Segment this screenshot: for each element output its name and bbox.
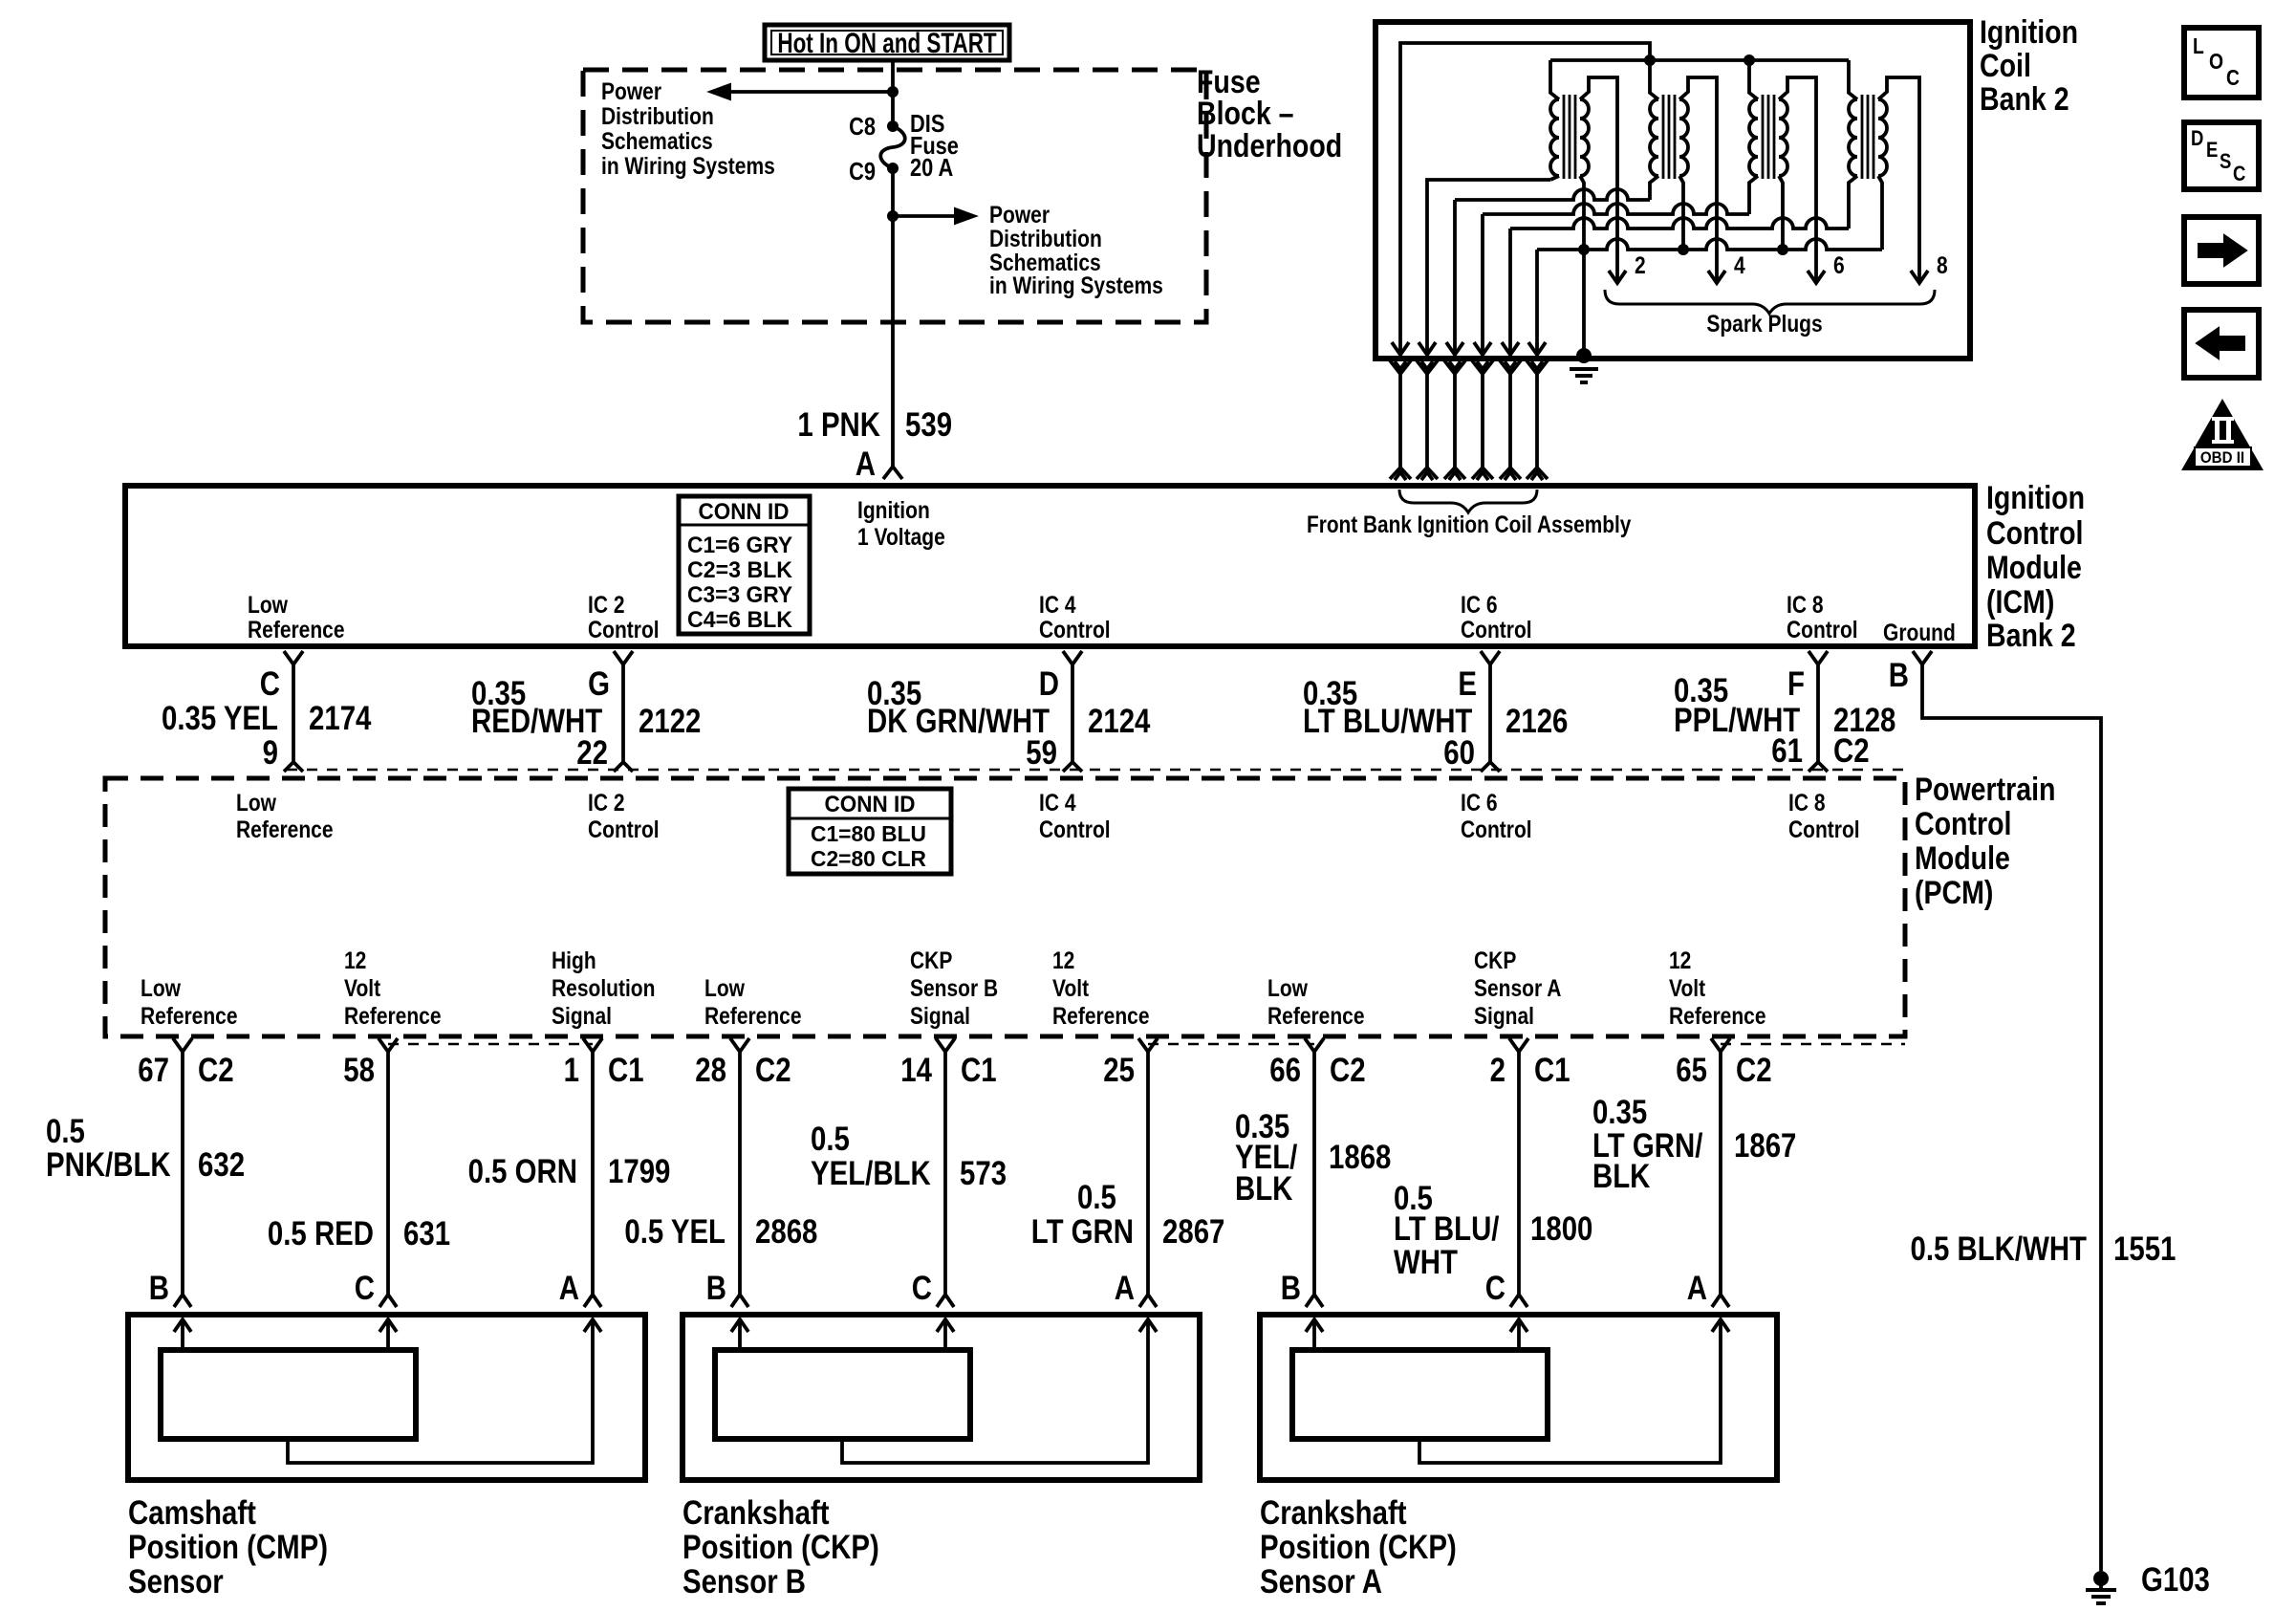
- svg-text:Low: Low: [704, 974, 745, 1001]
- svg-text:1551: 1551: [2113, 1230, 2176, 1268]
- svg-text:Ground: Ground: [1883, 619, 1956, 645]
- svg-text:C4=6 BLK: C4=6 BLK: [687, 606, 792, 632]
- svg-text:Control: Control: [1461, 816, 1532, 842]
- icon arrow left: [2184, 310, 2259, 378]
- connector pin D (ICM): [1063, 651, 1082, 664]
- svg-text:573: 573: [960, 1155, 1007, 1192]
- svg-text:4: 4: [1734, 251, 1745, 278]
- svg-text:CONN ID: CONN ID: [699, 498, 790, 524]
- svg-text:LT BLU/: LT BLU/: [1394, 1210, 1499, 1248]
- wire: 12V feed to coil primaries (top run): [1400, 43, 1650, 355]
- svg-text:6: 6: [1833, 251, 1845, 278]
- coil assembly wire W2 with inline connector: [1419, 342, 1436, 355]
- svg-text:Volt: Volt: [344, 974, 380, 1001]
- power feed label box "Hot In ON and START": [765, 25, 1009, 60]
- svg-text:Resolution: Resolution: [552, 974, 655, 1001]
- svg-text:2174: 2174: [309, 700, 371, 737]
- svg-text:Volt: Volt: [1669, 974, 1705, 1001]
- svg-text:Crankshaft: Crankshaft: [1260, 1494, 1407, 1532]
- svg-text:59: 59: [1026, 734, 1057, 772]
- svg-text:2868: 2868: [755, 1213, 817, 1251]
- svg-text:Low: Low: [141, 974, 181, 1001]
- svg-text:2867: 2867: [1162, 1213, 1224, 1251]
- svg-text:C2: C2: [755, 1052, 791, 1089]
- svg-text:CONN ID: CONN ID: [825, 791, 916, 816]
- wire: ignition feed vertical (PNK 539): [891, 60, 895, 126]
- wire from pin B to ground G103: [1922, 664, 2101, 1571]
- svg-text:539: 539: [905, 406, 952, 444]
- svg-text:LT GRN: LT GRN: [1031, 1213, 1134, 1251]
- ignition coil T3 (transformer): [1749, 99, 1758, 176]
- coil assembly wire W4 with inline connector: [1474, 342, 1491, 355]
- svg-text:Power: Power: [601, 77, 661, 104]
- sensor element (inner box): [161, 1350, 416, 1439]
- svg-text:Reference: Reference: [236, 816, 334, 842]
- wire loop to pin A: [842, 1321, 1148, 1463]
- svg-text:2: 2: [1635, 251, 1646, 278]
- connector pin 14 C1 (PCM) and wire to sensor: [936, 1038, 955, 1052]
- svg-text:C2=3 BLK: C2=3 BLK: [687, 556, 792, 582]
- svg-text:12: 12: [1669, 947, 1691, 973]
- coil assembly wire W1 with inline connector: [1392, 342, 1409, 355]
- svg-text:Front Bank Ignition Coil Assem: Front Bank Ignition Coil Assembly: [1307, 511, 1631, 537]
- ignition coil T4 (transformer): [1849, 99, 1857, 176]
- wire loop to pin A: [1419, 1321, 1721, 1463]
- svg-text:Control: Control: [588, 616, 660, 642]
- svg-text:Reference: Reference: [141, 1002, 238, 1029]
- svg-text:Power: Power: [989, 201, 1050, 228]
- svg-text:Control: Control: [1039, 616, 1111, 642]
- svg-text:632: 632: [198, 1146, 245, 1184]
- sensor element (inner box): [1292, 1350, 1548, 1439]
- wire: secondary common ground run: [1535, 250, 1539, 355]
- svg-text:Bank 2: Bank 2: [1980, 81, 2069, 118]
- svg-text:0.5 ORN: 0.5 ORN: [468, 1153, 577, 1190]
- connector grouping dashes (PCM bottom): [388, 1043, 593, 1046]
- svg-text:A: A: [856, 446, 876, 483]
- connector pin C (ICM): [284, 651, 303, 664]
- ignition control module (ICM) box: [125, 486, 1975, 646]
- svg-text:C1: C1: [1534, 1052, 1570, 1089]
- wire from ICM pin F to PCM: [1816, 664, 1820, 764]
- node: secondary ground junctions: [1578, 244, 1590, 255]
- svg-text:2122: 2122: [639, 703, 701, 740]
- connector pin B (ICM): [1913, 651, 1932, 664]
- ground (coil bank internal): [1576, 348, 1592, 363]
- svg-text:Reference: Reference: [704, 1002, 802, 1029]
- svg-text:2124: 2124: [1088, 703, 1150, 740]
- wire from ICM pin C to PCM: [292, 664, 295, 764]
- svg-text:Sensor A: Sensor A: [1474, 974, 1562, 1001]
- connector pin 66 C2 (PCM) and wire to sensor: [1305, 1038, 1324, 1052]
- svg-text:IC 8: IC 8: [1787, 591, 1824, 618]
- fuse block underhood dashed box: [583, 70, 1206, 322]
- svg-text:2126: 2126: [1505, 703, 1568, 740]
- svg-text:Sensor: Sensor: [128, 1563, 224, 1600]
- svg-text:C1: C1: [608, 1052, 644, 1089]
- svg-text:Reference: Reference: [1669, 1002, 1766, 1029]
- svg-text:BLK: BLK: [1235, 1170, 1293, 1208]
- sensor box: Crankshaft Sensor A: [1260, 1315, 1777, 1480]
- wire arrow right to Power Distribution Schematics: [893, 214, 955, 218]
- icon OBD II triangle: [2181, 399, 2264, 470]
- svg-text:0.5: 0.5: [46, 1113, 85, 1150]
- svg-text:B: B: [149, 1270, 169, 1307]
- ignition coil bank 2 box: [1375, 22, 1970, 359]
- svg-text:C2: C2: [1736, 1052, 1772, 1089]
- wire from ICM pin G to PCM: [621, 664, 625, 764]
- svg-text:C2: C2: [1330, 1052, 1366, 1089]
- svg-text:Signal: Signal: [1474, 1002, 1534, 1029]
- svg-text:CKP: CKP: [910, 947, 952, 973]
- svg-text:65: 65: [1676, 1052, 1707, 1089]
- svg-text:E: E: [1458, 665, 1477, 703]
- svg-text:12: 12: [344, 947, 366, 973]
- svg-text:Schematics: Schematics: [601, 127, 713, 154]
- svg-text:1800: 1800: [1530, 1210, 1592, 1248]
- svg-text:IC 2: IC 2: [588, 789, 625, 816]
- svg-text:A: A: [559, 1270, 579, 1307]
- svg-text:C2: C2: [198, 1052, 234, 1089]
- svg-text:67: 67: [138, 1052, 169, 1089]
- connector pin 1 C1 (PCM) and wire to sensor: [583, 1038, 602, 1052]
- wire from ICM pin E to PCM: [1488, 664, 1492, 764]
- svg-text:Low: Low: [1267, 974, 1308, 1001]
- svg-text:O: O: [2209, 51, 2223, 75]
- svg-text:Control: Control: [1986, 515, 2083, 552]
- svg-text:Position (CMP): Position (CMP): [128, 1529, 328, 1566]
- wire arrow left to Power Distribution Schematics: [730, 90, 893, 94]
- svg-text:20 A: 20 A: [910, 154, 953, 182]
- svg-text:Reference: Reference: [1267, 1002, 1365, 1029]
- wire loop to pin A: [288, 1321, 593, 1463]
- svg-text:C1=6 GRY: C1=6 GRY: [687, 532, 792, 557]
- svg-text:in Wiring Systems: in Wiring Systems: [601, 152, 775, 179]
- svg-text:C2=80 CLR: C2=80 CLR: [811, 848, 926, 872]
- svg-text:B: B: [706, 1270, 726, 1307]
- svg-text:CKP: CKP: [1474, 947, 1516, 973]
- svg-text:D: D: [2191, 128, 2203, 151]
- svg-text:Ignition: Ignition: [1980, 14, 2078, 51]
- svg-text:22: 22: [576, 734, 608, 772]
- svg-text:IC 4: IC 4: [1039, 591, 1076, 618]
- svg-text:61: 61: [1771, 732, 1803, 770]
- svg-text:in Wiring Systems: in Wiring Systems: [989, 272, 1163, 298]
- svg-text:C9: C9: [849, 158, 876, 185]
- svg-text:A: A: [1687, 1270, 1707, 1307]
- svg-text:C: C: [2233, 163, 2246, 186]
- svg-text:C: C: [912, 1270, 932, 1307]
- svg-text:0.5 BLK/WHT: 0.5 BLK/WHT: [1910, 1230, 2087, 1268]
- svg-text:Sensor B: Sensor B: [910, 974, 998, 1001]
- ground G103: [2093, 1571, 2109, 1586]
- svg-text:0.5 RED: 0.5 RED: [268, 1215, 374, 1252]
- svg-text:66: 66: [1269, 1052, 1301, 1089]
- svg-text:Control: Control: [1787, 616, 1858, 642]
- node: T2 primary feed junction: [1644, 54, 1656, 66]
- svg-text:WHT: WHT: [1394, 1244, 1458, 1281]
- svg-text:Control: Control: [1915, 806, 2011, 842]
- svg-text:Reference: Reference: [248, 616, 345, 642]
- brace: spark plugs: [1605, 290, 1935, 314]
- svg-text:E: E: [2206, 140, 2218, 163]
- svg-text:Low: Low: [248, 591, 288, 618]
- wire: IC control feeds to primaries: [1427, 180, 1550, 355]
- svg-text:Ignition: Ignition: [857, 496, 930, 523]
- node: branch to power distribution (left): [887, 86, 899, 98]
- svg-text:Reference: Reference: [344, 1002, 442, 1029]
- svg-text:C1=80 BLU: C1=80 BLU: [811, 823, 926, 847]
- svg-text:Distribution: Distribution: [989, 225, 1102, 251]
- svg-text:Control: Control: [1788, 816, 1860, 842]
- svg-text:Powertrain: Powertrain: [1915, 772, 2055, 808]
- svg-text:C: C: [1485, 1270, 1505, 1307]
- svg-text:Underhood: Underhood: [1197, 128, 1342, 164]
- connector pin 58 (PCM) and wire to sensor: [379, 1038, 398, 1052]
- coil assembly wire W6 with inline connector: [1528, 342, 1546, 355]
- svg-text:C2: C2: [1833, 732, 1870, 770]
- svg-text:IC 4: IC 4: [1039, 789, 1076, 816]
- svg-text:Sensor A: Sensor A: [1260, 1563, 1382, 1600]
- svg-text:A: A: [1115, 1270, 1135, 1307]
- svg-text:High: High: [552, 947, 596, 973]
- svg-text:0.5 YEL: 0.5 YEL: [624, 1213, 726, 1251]
- svg-text:1868: 1868: [1329, 1139, 1391, 1176]
- svg-text:28: 28: [695, 1052, 726, 1089]
- svg-text:IC 6: IC 6: [1461, 591, 1498, 618]
- icon LOC: [2184, 28, 2259, 98]
- coil assembly wire W5 with inline connector: [1502, 342, 1519, 355]
- svg-text:1867: 1867: [1734, 1127, 1796, 1165]
- svg-text:Control: Control: [1039, 816, 1111, 842]
- svg-text:C: C: [260, 665, 280, 703]
- svg-text:Crankshaft: Crankshaft: [682, 1494, 830, 1532]
- svg-text:Distribution: Distribution: [601, 102, 714, 129]
- svg-text:Control: Control: [588, 816, 660, 842]
- coil assembly wire W3 with inline connector: [1446, 342, 1463, 355]
- connector pin E (ICM): [1481, 651, 1500, 664]
- conn id table (PCM): [789, 789, 951, 874]
- svg-text:Signal: Signal: [910, 1002, 970, 1029]
- svg-text:1799: 1799: [608, 1153, 670, 1190]
- svg-text:14: 14: [900, 1052, 932, 1089]
- svg-text:(PCM): (PCM): [1915, 875, 1993, 911]
- svg-text:Module: Module: [1986, 550, 2082, 586]
- svg-text:Block –: Block –: [1197, 96, 1294, 132]
- svg-text:D: D: [1039, 665, 1059, 703]
- svg-text:60: 60: [1443, 734, 1475, 772]
- svg-text:C3=3 GRY: C3=3 GRY: [687, 581, 792, 607]
- svg-text:IC 6: IC 6: [1461, 789, 1498, 816]
- sensor box: Crankshaft Sensor B: [682, 1315, 1200, 1480]
- ignition coil T1 (transformer): [1550, 99, 1559, 176]
- svg-text:Signal: Signal: [552, 1002, 612, 1029]
- svg-text:58: 58: [343, 1052, 375, 1089]
- svg-text:IC 8: IC 8: [1788, 789, 1826, 816]
- connector pin 67 C2 (PCM) and wire to sensor: [173, 1038, 192, 1052]
- svg-text:12: 12: [1052, 947, 1074, 973]
- svg-text:25: 25: [1103, 1052, 1135, 1089]
- svg-text:Coil: Coil: [1980, 48, 2031, 84]
- svg-text:631: 631: [403, 1215, 450, 1252]
- svg-text:9: 9: [263, 734, 278, 772]
- icon DESC: [2184, 122, 2259, 189]
- svg-text:2: 2: [1490, 1052, 1505, 1089]
- svg-text:0.35 YEL: 0.35 YEL: [162, 700, 278, 737]
- svg-text:S: S: [2220, 151, 2231, 174]
- svg-text:Module: Module: [1915, 840, 2010, 877]
- svg-text:Hot In ON and START: Hot In ON and START: [777, 27, 996, 59]
- svg-text:1: 1: [564, 1052, 579, 1089]
- svg-text:Bank 2: Bank 2: [1986, 618, 2076, 654]
- svg-text:L: L: [2193, 35, 2204, 59]
- connector plane line ICM/PCM: [287, 769, 1905, 772]
- svg-text:Volt: Volt: [1052, 974, 1089, 1001]
- svg-text:Sensor B: Sensor B: [682, 1563, 806, 1600]
- svg-text:B: B: [1281, 1270, 1301, 1307]
- sensor box: Camshaft Sensor: [128, 1315, 645, 1480]
- connector pin G (ICM): [614, 651, 633, 664]
- svg-text:0.5: 0.5: [811, 1121, 850, 1158]
- svg-text:BLK: BLK: [1592, 1158, 1651, 1195]
- connector pin 65 C2 (PCM) and wire to sensor: [1711, 1038, 1730, 1052]
- svg-text:0.5: 0.5: [1077, 1179, 1116, 1216]
- svg-text:C: C: [355, 1270, 375, 1307]
- svg-text:B: B: [1889, 657, 1909, 694]
- svg-text:Reference: Reference: [1052, 1002, 1150, 1029]
- node: T3 primary feed junction: [1744, 54, 1755, 66]
- svg-text:Position (CKP): Position (CKP): [682, 1529, 879, 1566]
- connector pin 2 C1 (PCM) and wire to sensor: [1509, 1038, 1528, 1052]
- svg-text:YEL/BLK: YEL/BLK: [811, 1155, 931, 1192]
- svg-text:Position (CKP): Position (CKP): [1260, 1529, 1457, 1566]
- svg-text:8: 8: [1937, 251, 1948, 278]
- svg-text:PNK/BLK: PNK/BLK: [46, 1146, 171, 1184]
- node: branch to power distribution (right): [887, 210, 899, 222]
- svg-text:F: F: [1787, 665, 1805, 703]
- svg-text:G: G: [588, 665, 610, 703]
- connector pin 28 C2 (PCM) and wire to sensor: [730, 1038, 749, 1052]
- connector pin F (ICM): [1809, 651, 1828, 664]
- svg-text:(ICM): (ICM): [1986, 584, 2054, 620]
- svg-text:Low: Low: [236, 789, 276, 816]
- svg-text:Camshaft: Camshaft: [128, 1494, 256, 1532]
- svg-text:IC 2: IC 2: [588, 591, 625, 618]
- svg-text:Ignition: Ignition: [1986, 480, 2085, 516]
- svg-text:0.35: 0.35: [1592, 1094, 1647, 1131]
- connector pin 25 (PCM) and wire to sensor: [1138, 1038, 1158, 1052]
- sensor element (inner box): [715, 1350, 970, 1439]
- ignition coil T2 (transformer): [1650, 99, 1658, 176]
- svg-text:G103: G103: [2141, 1561, 2210, 1599]
- conn id table (ICM): [679, 496, 810, 634]
- svg-text:Control: Control: [1461, 616, 1532, 642]
- svg-text:DK GRN/WHT: DK GRN/WHT: [867, 703, 1050, 740]
- svg-text:C: C: [2226, 67, 2240, 91]
- svg-text:1 PNK: 1 PNK: [797, 406, 880, 444]
- svg-text:C1: C1: [961, 1052, 997, 1089]
- svg-text:C8: C8: [849, 113, 876, 141]
- wire from ICM pin D to PCM: [1071, 664, 1074, 764]
- svg-text:OBD II: OBD II: [2200, 449, 2244, 467]
- powertrain control module (PCM) dashed box: [105, 778, 1905, 1036]
- svg-text:Spark Plugs: Spark Plugs: [1706, 310, 1822, 337]
- svg-text:1 Voltage: 1 Voltage: [857, 523, 945, 550]
- label: Front Bank Ignition Coil Assembly: [1399, 490, 1537, 512]
- fuse F (DIS Fuse 20 A): [880, 126, 905, 168]
- icon arrow right: [2184, 217, 2259, 284]
